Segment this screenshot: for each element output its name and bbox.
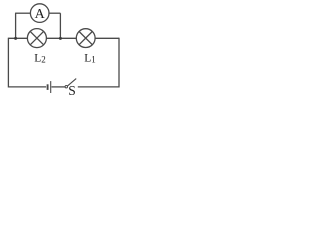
wire: battery to switch bbox=[52, 86, 66, 88]
svg-text:S: S bbox=[68, 83, 76, 97]
junction dot left bbox=[14, 37, 17, 40]
lamp L1 cross bbox=[79, 32, 92, 45]
wire: main row left segment bbox=[8, 37, 27, 39]
wire: switch to right corner bbox=[78, 86, 119, 88]
wire: main row middle segment bbox=[46, 37, 76, 39]
battery negative plate (short thick) bbox=[47, 84, 49, 90]
lamp L2 cross bbox=[30, 31, 43, 44]
wire: main row right segment bbox=[95, 37, 119, 39]
battery positive plate (long thin) bbox=[50, 81, 52, 93]
switch S pivot contact bbox=[65, 86, 67, 88]
junction dot right bbox=[59, 37, 62, 40]
svg-text:L1: L1 bbox=[84, 52, 96, 64]
svg-text:A: A bbox=[35, 7, 46, 22]
wire: ammeter branch top-left horizontal bbox=[15, 12, 31, 14]
ammeter U1 circle bbox=[30, 4, 49, 23]
switch S blade bbox=[67, 79, 76, 87]
lamp L2 circle bbox=[27, 29, 46, 48]
wire: outer left vertical bbox=[7, 38, 9, 88]
lamp L1 circle bbox=[76, 29, 95, 48]
svg-text:L2: L2 bbox=[34, 52, 46, 64]
wire: ammeter branch top-right horizontal bbox=[49, 12, 61, 14]
wire: ammeter branch right vertical bbox=[59, 13, 61, 38]
wire: ammeter branch left vertical bbox=[15, 13, 17, 38]
wire: outer right vertical bbox=[118, 38, 120, 88]
wire: bottom left segment to battery bbox=[8, 86, 46, 88]
